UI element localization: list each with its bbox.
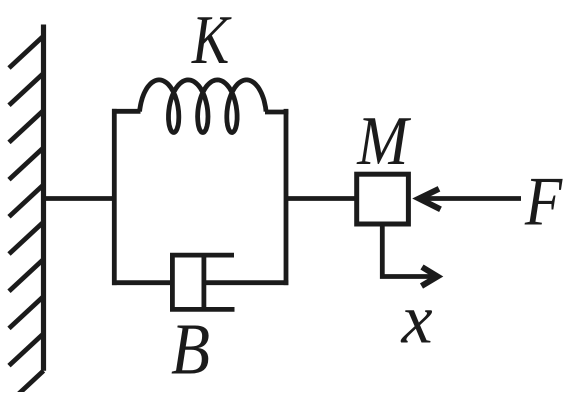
wire wall to node A [44,196,115,201]
wall hatch 5 [9,185,44,217]
damper B cylinder [172,255,234,309]
spring K coil [140,80,266,133]
wire damper branch left [112,280,172,285]
mass M box [357,174,409,224]
wall hatch 1 [9,36,44,68]
wall hatch 7 [9,259,44,291]
wall [41,25,46,371]
wire spring branch right [265,110,288,115]
svg-text:x: x [400,281,432,358]
svg-text:B: B [171,309,210,390]
wire spring branch left [112,109,141,114]
node A left bracket vertical [112,109,117,285]
displacement x stem [382,224,434,277]
wall hatch 10 [9,371,44,397]
damper B piston rod [204,280,288,285]
wall hatch 4 [9,148,44,180]
svg-text:F: F [524,163,563,241]
force F arrow shaft [423,196,522,201]
wall hatch 3 [9,110,44,142]
wall hatch 6 [9,222,44,254]
wire node B to mass [286,196,357,201]
svg-text:M: M [356,102,411,180]
wall hatch 9 [9,334,44,366]
force F arrowhead [419,189,441,210]
displacement x arrowhead [422,267,438,286]
damper B piston [201,255,206,309]
node B right bracket vertical [284,109,289,285]
wall hatch 2 [9,73,44,105]
svg-text:K: K [191,1,232,78]
wall hatch 8 [9,296,44,328]
